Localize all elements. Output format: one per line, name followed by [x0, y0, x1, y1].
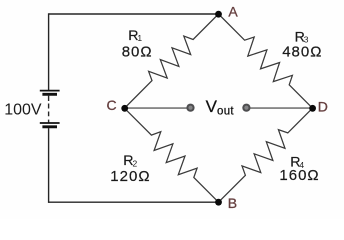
resistor R3 (between A and D) — [219, 14, 313, 108]
svg-text:V: V — [206, 97, 218, 116]
wire: left rail lower (battery down to bottom corner) — [48, 128, 50, 203]
svg-text:1: 1 — [137, 33, 142, 43]
wire: node C to Vout left terminal — [125, 107, 191, 109]
wire: left rail upper (top corner down to battery) — [48, 13, 50, 90]
resistor R2 (between C and B) — [125, 108, 219, 202]
wire: top from left rail to node A — [49, 13, 219, 15]
svg-text:480Ω: 480Ω — [282, 44, 322, 61]
svg-text:C: C — [107, 97, 117, 113]
svg-text:100V: 100V — [4, 102, 42, 119]
node B junction dot — [215, 199, 222, 206]
svg-text:2: 2 — [133, 158, 138, 168]
svg-text:A: A — [228, 4, 238, 20]
node C junction dot — [121, 105, 128, 112]
resistor R4 (between B and D) — [219, 108, 313, 202]
svg-text:120Ω: 120Ω — [110, 168, 150, 185]
Vout left terminal (open dot) — [186, 104, 194, 112]
svg-text:B: B — [228, 195, 237, 211]
battery B1 cell2 positive plate — [40, 122, 60, 124]
wire: Vout right terminal to node D — [246, 107, 312, 109]
battery B1 cell1 negative plate — [42, 93, 57, 96]
battery B1 inter-cell link (solid stub) — [48, 96, 50, 101]
battery B1 cell1 positive plate — [40, 90, 60, 92]
svg-text:D: D — [318, 99, 328, 115]
svg-text:80Ω: 80Ω — [122, 44, 153, 61]
resistor R1 (between C and A) — [125, 14, 219, 108]
battery B1 inter-cell link (solid stub 2) — [48, 120, 50, 123]
node A junction dot — [215, 11, 222, 18]
svg-text:out: out — [217, 105, 234, 117]
wire: bottom from left rail to node B — [49, 201, 219, 203]
Vout right terminal (open dot) — [242, 104, 250, 112]
node D junction dot — [309, 105, 316, 112]
svg-text:160Ω: 160Ω — [279, 167, 319, 184]
battery B1 cell2 negative plate — [42, 125, 57, 128]
battery B1 inter-cell link (dashed, omitted cells) — [48, 104, 50, 117]
